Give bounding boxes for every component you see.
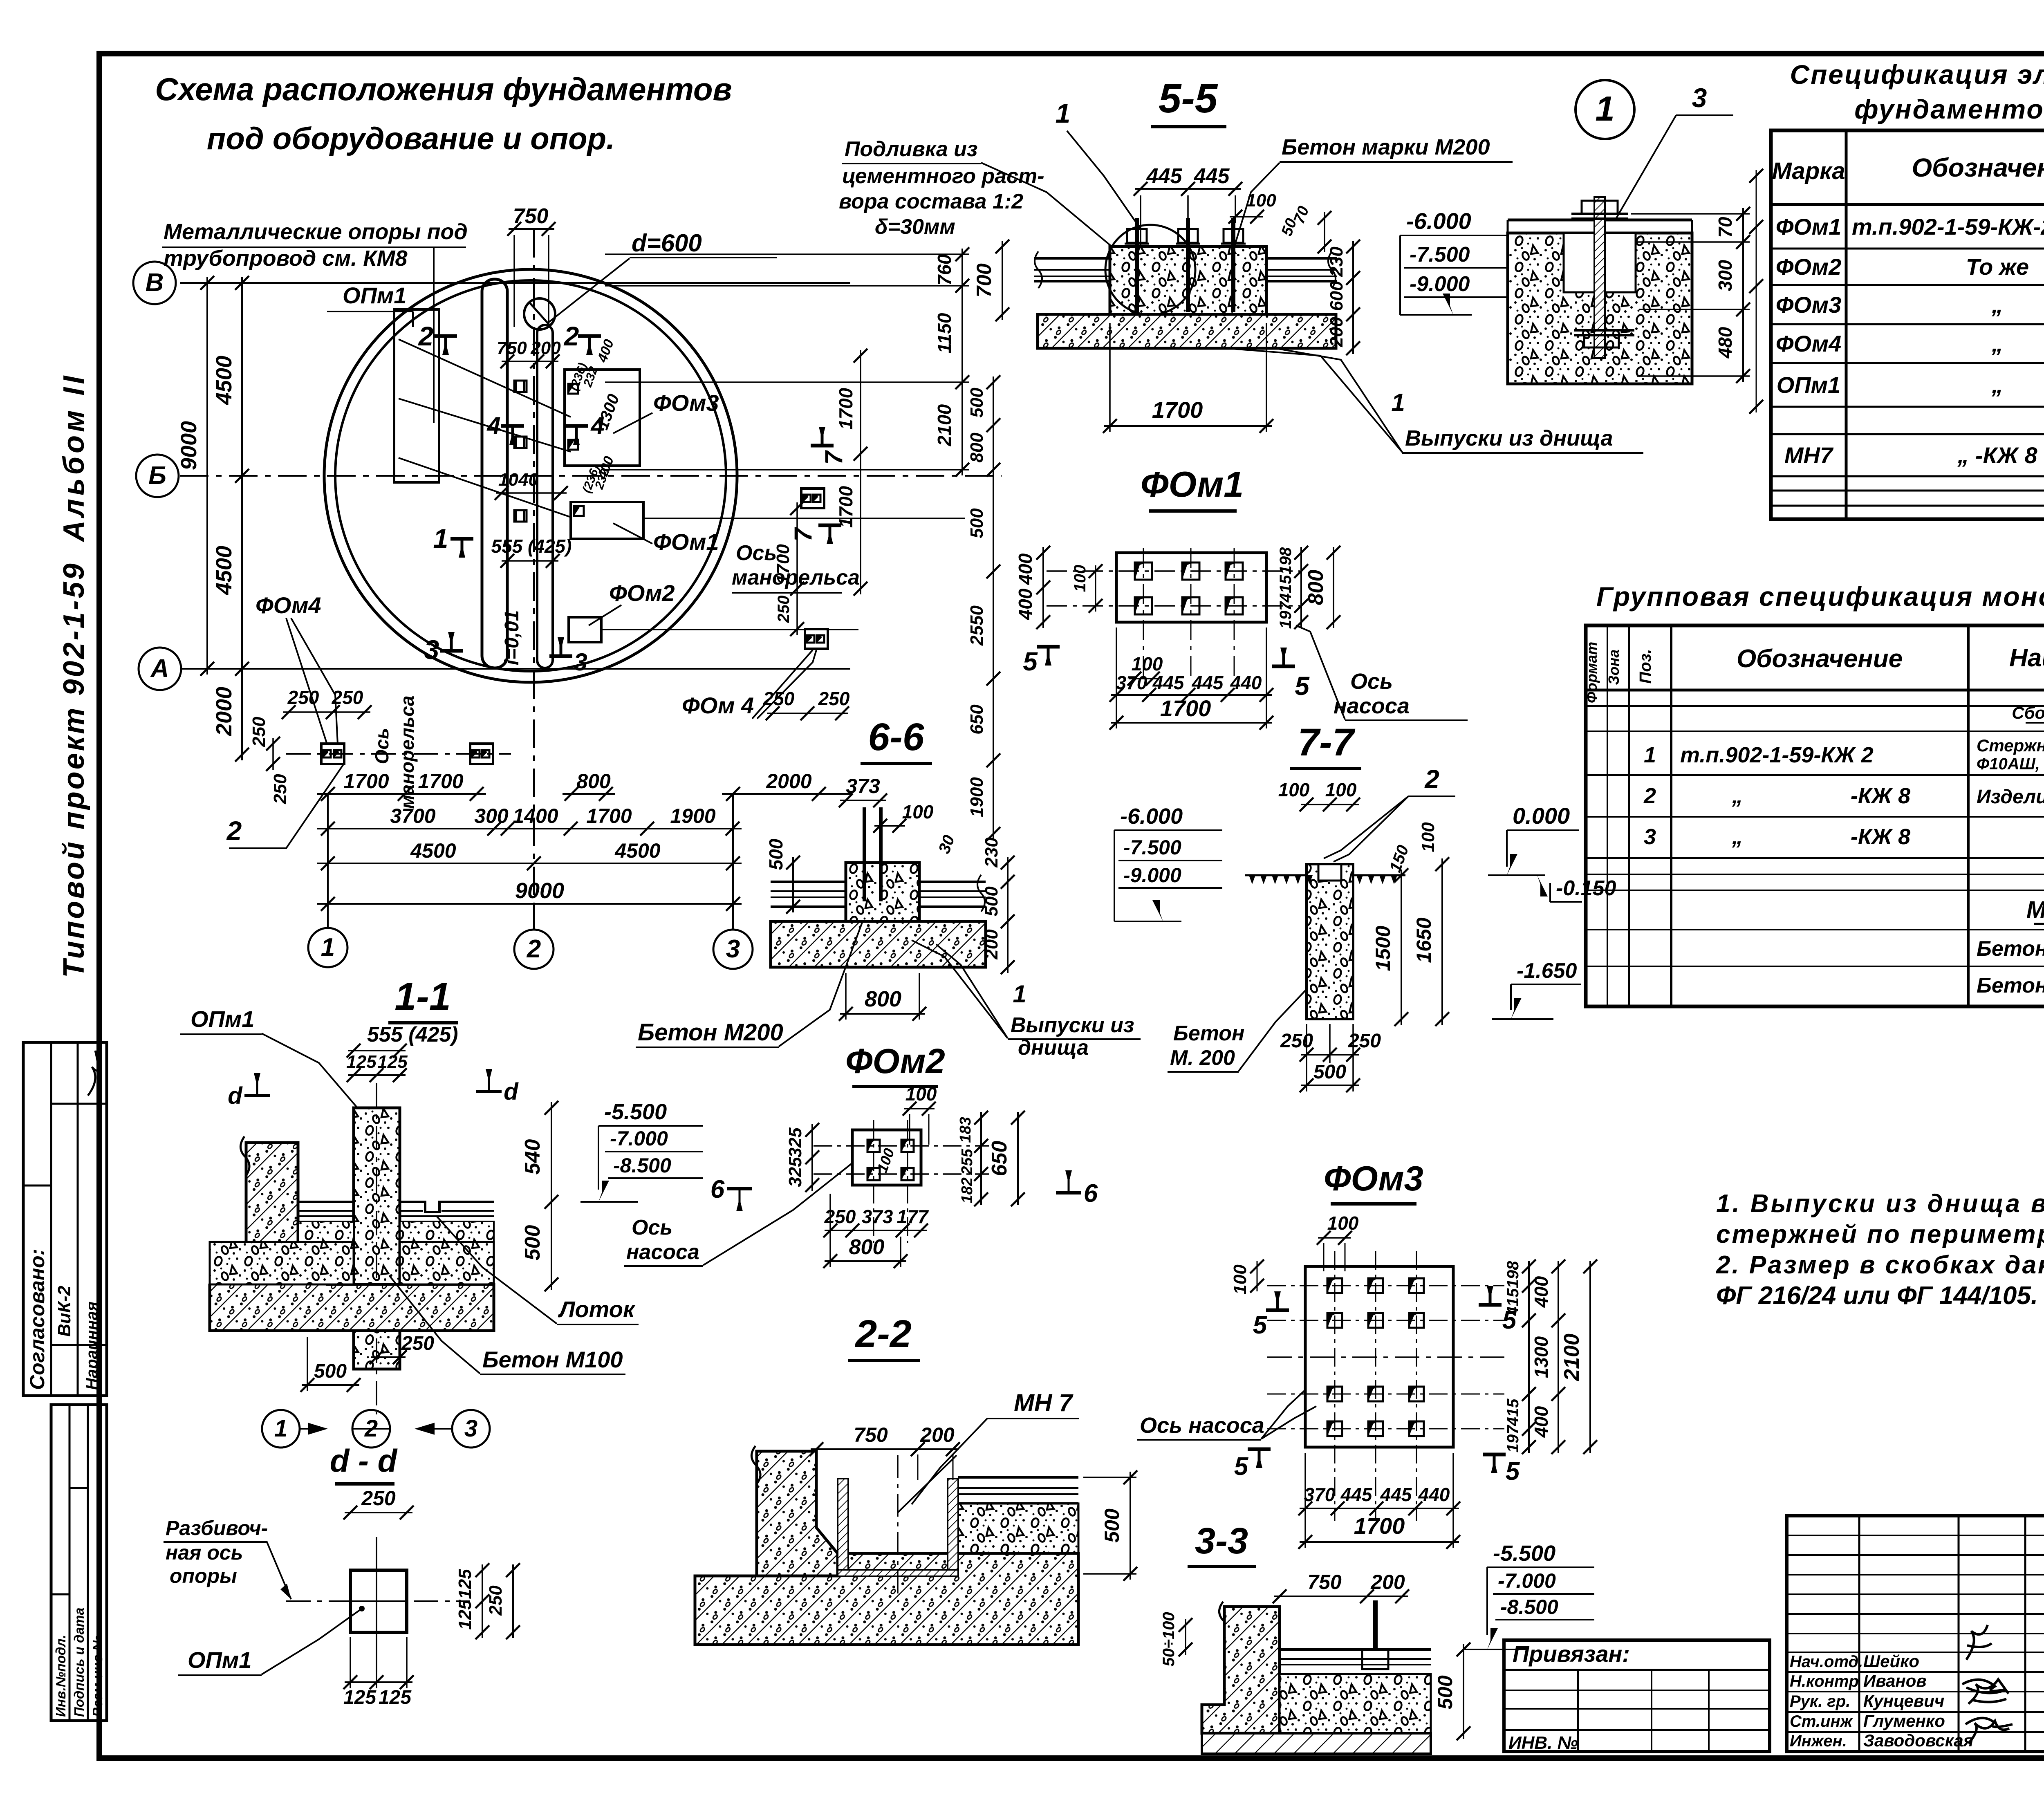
ФОм2 outline <box>852 1130 921 1185</box>
plan bolts on fom1 <box>574 506 584 516</box>
svg-text:Ось: Ось <box>736 541 777 565</box>
svg-text:4500: 4500 <box>410 839 456 862</box>
ФОм1 left dims 400/400 <box>1042 547 1044 628</box>
plan: axis line В <box>180 282 850 284</box>
svg-text:Выпуски из: Выпуски из <box>1011 1013 1134 1037</box>
svg-text:250: 250 <box>287 687 319 708</box>
ФОм1 anchor bolt squares <box>1135 563 1152 580</box>
svg-text:Ф10АШ, ℓ=950 ГОСТ 5.1459-72: Ф10АШ, ℓ=950 ГОСТ 5.1459-72 <box>1977 755 2044 773</box>
svg-text:540: 540 <box>521 1139 545 1175</box>
svg-text:250: 250 <box>1280 1030 1313 1052</box>
svg-text:манорельса: манорельса <box>732 566 860 589</box>
svg-text:цементного раст-: цементного раст- <box>842 164 1044 188</box>
svg-text:5: 5 <box>1234 1452 1249 1481</box>
svg-text:Шейко: Шейко <box>1863 1652 1919 1671</box>
svg-text:250: 250 <box>361 1487 396 1510</box>
axis bubble В <box>133 262 176 304</box>
plan bottom dim row 9000 <box>317 903 742 905</box>
6-6 pedestal <box>846 863 919 921</box>
svg-text:6: 6 <box>1084 1179 1098 1208</box>
6-6 dim 800 below <box>840 1013 925 1015</box>
svg-text:-9.000: -9.000 <box>1123 864 1181 887</box>
svg-text:„: „ <box>1732 825 1743 849</box>
svg-text:„ -КЖ 8: „ -КЖ 8 <box>1957 442 2037 468</box>
dash-dot line through ФОм4 supports <box>286 753 511 755</box>
plan: slot anchor bolts <box>514 381 527 392</box>
section flag 3 left <box>440 649 463 653</box>
svg-text:вора состава 1:2: вора состава 1:2 <box>839 190 1023 213</box>
5-5 right floor slab <box>1266 257 1337 260</box>
opm1 slanted struts <box>399 339 571 417</box>
svg-text:ная ось: ная ось <box>166 1541 243 1564</box>
svg-text:3: 3 <box>464 1415 477 1442</box>
svg-text:-1.650: -1.650 <box>1517 959 1577 983</box>
svg-text:ФОм 4: ФОм 4 <box>682 692 754 718</box>
margin stamp table: Согласовано <box>23 1042 107 1396</box>
svg-text:-КЖ 8: -КЖ 8 <box>1851 825 1910 849</box>
plan bolts on fom3 <box>568 384 578 394</box>
svg-text:Бетон марки 200: Бетон марки 200 <box>1977 937 2044 961</box>
svg-text:750: 750 <box>854 1423 888 1446</box>
svg-text:Стержни одиночные: Стержни одиночные <box>1977 736 2044 755</box>
svg-text:1: 1 <box>321 933 335 961</box>
ФОм3 bolts 3x4 <box>1327 1278 1342 1293</box>
svg-text:Изделие закладное МН8: Изделие закладное МН8 <box>1977 786 2044 808</box>
svg-text:0.000: 0.000 <box>1513 803 1570 829</box>
section flag 7 upper <box>811 444 834 448</box>
svg-text:ФОм2: ФОм2 <box>845 1042 945 1081</box>
svg-text:445: 445 <box>1194 164 1230 188</box>
svg-text:-7.000: -7.000 <box>1498 1569 1556 1592</box>
section flag 7 lower <box>818 524 841 527</box>
7-7 pier top notch <box>1318 864 1341 881</box>
svg-text:Материалы.: Материалы. <box>2026 896 2044 923</box>
svg-text:2. Размер в скобках дан дл: 2. Размер в скобках дан для варианта с н… <box>1716 1251 2044 1279</box>
7-7 ground line with hatching <box>1245 874 1307 876</box>
svg-text:-8.500: -8.500 <box>1500 1596 1558 1618</box>
ФОм3 section marks 5 <box>1266 1309 1289 1312</box>
svg-text:ФОм3: ФОм3 <box>1324 1159 1423 1198</box>
svg-text:1: 1 <box>1056 98 1071 128</box>
svg-text:Инжен.: Инжен. <box>1790 1732 1847 1750</box>
svg-text:d: d <box>504 1078 519 1105</box>
svg-text:125: 125 <box>379 1687 412 1708</box>
svg-text:250: 250 <box>775 596 793 623</box>
svg-text:500: 500 <box>1100 1508 1123 1543</box>
svg-text:ФОм4: ФОм4 <box>1776 331 1842 356</box>
plan: ФОм3 foundation rectangle <box>565 370 640 466</box>
plan bottom dim row 1700/1700 + 800 + 2000 <box>317 793 486 795</box>
ФОм3 right chain 400/1300/400 <box>1558 1261 1559 1453</box>
3-3 dim 500 <box>1463 1644 1464 1739</box>
svg-text:-6.000: -6.000 <box>1120 804 1183 829</box>
ФОм3 outline <box>1305 1266 1453 1447</box>
svg-text:2000: 2000 <box>766 770 811 793</box>
svg-text:750: 750 <box>513 204 549 228</box>
svg-text:2: 2 <box>226 816 242 846</box>
ФОм1 section marks 5 <box>1037 645 1060 649</box>
svg-text:100: 100 <box>902 801 934 822</box>
plan: ФОм1 foundation rectangle <box>571 502 643 539</box>
1-1 axis bubbles 1 2 3 below <box>262 1410 300 1448</box>
svg-text:2100: 2100 <box>1560 1333 1584 1381</box>
spec table left dim ticks <box>1756 170 1757 412</box>
7-7 dim 1500 <box>1401 870 1402 1025</box>
svg-text:760: 760 <box>934 254 955 285</box>
svg-text:Бетон: Бетон <box>1173 1022 1244 1045</box>
svg-text:400: 400 <box>1531 1406 1552 1438</box>
svg-text:445: 445 <box>1192 672 1224 693</box>
svg-text:100: 100 <box>1327 1212 1359 1234</box>
svg-text:Ст.инж: Ст.инж <box>1790 1712 1853 1730</box>
detail 1 top slab line <box>1508 219 1692 222</box>
svg-text:ОПм1: ОПм1 <box>1777 372 1840 398</box>
svg-text:Бетон марки М200: Бетон марки М200 <box>1282 135 1490 159</box>
svg-text:500: 500 <box>1313 1061 1346 1083</box>
ФОм3 bolt axes <box>1267 1285 1504 1286</box>
ФОм1 bolt row axes <box>1047 570 1300 572</box>
svg-text:1700: 1700 <box>835 486 856 528</box>
svg-text:183: 183 <box>957 1117 974 1143</box>
svg-text:100: 100 <box>1325 779 1357 800</box>
svg-text:1. Выпуски из днища выполня: 1. Выпуски из днища выполнять из одиночн… <box>1716 1190 2044 1218</box>
d-d right dims 125/125/250 <box>482 1564 483 1638</box>
svg-text:7-7: 7-7 <box>1298 721 1355 764</box>
svg-text:стержней по периметру фунда: стержней по периметру фундаментов шагом … <box>1716 1220 2044 1248</box>
svg-text:4500: 4500 <box>212 356 236 405</box>
svg-text:т.п.902-1-59-КЖ 2: т.п.902-1-59-КЖ 2 <box>1680 743 1874 767</box>
detail 1 bottom washer and nut <box>1574 329 1634 332</box>
svg-text:-8.500: -8.500 <box>613 1154 671 1177</box>
svg-text:125: 125 <box>343 1687 377 1708</box>
svg-text:Кунцевич: Кунцевич <box>1863 1691 1944 1710</box>
svg-text:„: „ <box>1991 331 2003 356</box>
ФОм2 right chain 183/255/182 <box>980 1112 982 1205</box>
svg-text:Бетон марки 100: Бетон марки 100 <box>1977 974 2044 997</box>
2-2 dim 500 right <box>1130 1472 1131 1580</box>
svg-text:Зона: Зона <box>1605 650 1622 685</box>
svg-text:230: 230 <box>1327 247 1347 277</box>
svg-text:опоры: опоры <box>170 1564 237 1587</box>
axis bubble 2 bottom <box>533 904 535 930</box>
svg-text:255: 255 <box>959 1148 976 1175</box>
6-6 dim 100 <box>874 825 905 827</box>
plan: ФОм2 foundation rectangle <box>569 617 601 642</box>
svg-text:400: 400 <box>1015 588 1036 620</box>
svg-text:300: 300 <box>474 805 509 827</box>
signatures squiggles <box>1966 1625 1992 1660</box>
svg-text:2: 2 <box>527 935 541 963</box>
svg-text:373: 373 <box>846 775 880 798</box>
svg-text:70: 70 <box>1715 217 1736 238</box>
svg-text:1900: 1900 <box>670 805 715 827</box>
svg-text:-7.500: -7.500 <box>1123 836 1181 859</box>
svg-text:500: 500 <box>967 508 987 538</box>
svg-text:1700: 1700 <box>418 770 463 793</box>
svg-text:4: 4 <box>486 412 500 439</box>
svg-text:325: 325 <box>785 1157 805 1187</box>
svg-text:600: 600 <box>1327 281 1347 311</box>
svg-text:Заводовская: Заводовская <box>1863 1731 1974 1750</box>
1-1 dim 250 <box>371 1356 406 1358</box>
svg-text:1700: 1700 <box>343 770 389 793</box>
svg-text:800: 800 <box>967 433 987 463</box>
svg-text:δ=30мм: δ=30мм <box>875 215 955 239</box>
svg-text:То же: То же <box>1966 254 2029 280</box>
svg-text:-5.500: -5.500 <box>1493 1541 1555 1566</box>
plan bottom dim row 3700/300/1400/1700/1900 <box>317 828 742 829</box>
plan: floor drain circle d=600 <box>524 298 555 329</box>
svg-text:1: 1 <box>433 523 448 554</box>
svg-text:400: 400 <box>1015 553 1036 585</box>
svg-text:125: 125 <box>377 1052 408 1072</box>
svg-text:ФОм3: ФОм3 <box>653 390 719 416</box>
svg-text:250: 250 <box>824 1206 856 1227</box>
plan right chain 760/1150/2100 <box>961 249 963 475</box>
svg-text:200: 200 <box>920 1423 955 1446</box>
svg-text:3: 3 <box>1692 83 1707 113</box>
svg-text:198: 198 <box>1277 547 1295 574</box>
svg-text:7: 7 <box>789 527 817 542</box>
svg-text:2: 2 <box>1643 784 1656 808</box>
svg-text:3: 3 <box>424 634 439 665</box>
svg-text:М. 200: М. 200 <box>1170 1046 1235 1070</box>
svg-text:1: 1 <box>1391 389 1405 416</box>
2-2 pit axis <box>897 1455 899 1596</box>
svg-text:100: 100 <box>1071 565 1089 592</box>
3-3 dims 750 200 <box>1274 1596 1408 1597</box>
2-2 pit walls (МН7 channel) <box>838 1479 848 1570</box>
ФОм2 section marks 6 <box>727 1187 752 1190</box>
title block: Привязан box <box>1504 1640 1770 1752</box>
svg-text:Металлические опоры под: Металлические опоры под <box>164 220 468 244</box>
svg-text:125: 125 <box>455 1600 475 1630</box>
detail 1 top washer and nut <box>1571 213 1628 215</box>
plan: pit slot right channel wall <box>537 325 553 668</box>
svg-text:4500: 4500 <box>212 546 236 595</box>
section flag 2 left <box>434 334 457 338</box>
svg-text:800: 800 <box>576 770 611 793</box>
section flag 2 right <box>578 334 601 338</box>
2-2 dims 750 200 <box>811 1448 959 1450</box>
svg-text:5: 5 <box>1023 647 1038 676</box>
5-5 detail circle around left bolt <box>1105 225 1195 315</box>
svg-text:ОПм1: ОПм1 <box>191 1006 254 1032</box>
svg-text:300: 300 <box>1715 260 1736 291</box>
svg-text:9000: 9000 <box>515 878 564 903</box>
svg-text:650: 650 <box>967 704 987 735</box>
1-1 section marks d <box>244 1094 270 1097</box>
svg-text:Ось: Ось <box>632 1216 672 1239</box>
svg-text:325: 325 <box>785 1127 805 1158</box>
3-3 wall hatched <box>1202 1607 1280 1733</box>
1-1 right dims 540/500 <box>551 1102 552 1290</box>
svg-text:Привязан:: Привязан: <box>1513 1641 1630 1667</box>
svg-text:370: 370 <box>1116 672 1148 693</box>
svg-text:3: 3 <box>1644 825 1656 849</box>
svg-text:1-1: 1-1 <box>394 975 450 1018</box>
svg-text:1300: 1300 <box>1531 1336 1552 1378</box>
svg-text:Ось: Ось <box>1350 669 1393 694</box>
svg-text:480: 480 <box>1715 327 1736 359</box>
3-3 base hatched strip <box>1202 1733 1431 1754</box>
svg-text:500: 500 <box>967 388 987 418</box>
svg-text:1900: 1900 <box>967 777 987 817</box>
svg-text:415: 415 <box>1504 1398 1522 1426</box>
svg-text:Ось: Ось <box>371 728 392 764</box>
svg-text:2-2: 2-2 <box>854 1312 911 1356</box>
3-3 floor slab <box>1280 1648 1431 1651</box>
svg-text:-5.500: -5.500 <box>604 1100 667 1124</box>
7-7 dims 100 100 <box>1301 804 1359 805</box>
svg-text:Марка: Марка <box>1772 158 1845 184</box>
svg-text:500: 500 <box>314 1360 347 1382</box>
svg-text:Н.контр: Н.контр <box>1790 1672 1859 1690</box>
1-1 lower fill between slabs <box>210 1242 354 1284</box>
svg-text:„: „ <box>1732 784 1743 808</box>
svg-text:370: 370 <box>1304 1484 1336 1505</box>
svg-text:под оборудование и опор.: под оборудование и опор. <box>207 121 615 156</box>
svg-text:МН7: МН7 <box>1784 442 1834 468</box>
svg-text:182: 182 <box>959 1177 976 1203</box>
ФОм1 right dims 198/415/197 <box>1300 547 1302 628</box>
svg-text:В: В <box>146 269 164 297</box>
5-5 anchor bolts <box>1135 218 1139 312</box>
plan: ФОм4 supports right side <box>801 489 824 508</box>
svg-text:197: 197 <box>1504 1425 1522 1452</box>
2-2 left wall hatched <box>695 1451 838 1645</box>
svg-text:Поз.: Поз. <box>1636 649 1654 684</box>
svg-text:ФОм3: ФОм3 <box>1776 292 1842 318</box>
svg-text:Взам.инв.№: Взам.инв.№ <box>90 1635 105 1717</box>
svg-text:7: 7 <box>820 450 847 465</box>
6-6 left slab <box>771 881 846 883</box>
svg-text:415: 415 <box>1277 575 1295 603</box>
svg-text:1500: 1500 <box>1372 926 1394 971</box>
svg-text:5-5: 5-5 <box>1159 76 1218 121</box>
svg-text:500: 500 <box>521 1225 545 1261</box>
axis bubble 3 bottom <box>732 794 734 930</box>
svg-text:2: 2 <box>563 321 579 351</box>
svg-text:800: 800 <box>849 1235 885 1259</box>
svg-text:200: 200 <box>982 929 1002 960</box>
svg-text:6: 6 <box>710 1175 725 1203</box>
svg-text:Обозначение: Обозначение <box>1912 153 2044 182</box>
left dim chain 4500/4500/2000 <box>241 277 243 760</box>
svg-text:-7.500: -7.500 <box>1410 243 1470 267</box>
1-1 left floor slab <box>298 1201 354 1203</box>
svg-text:400: 400 <box>1531 1276 1552 1308</box>
svg-text:Подливка из: Подливка из <box>845 137 977 161</box>
svg-text:650: 650 <box>988 1141 1011 1177</box>
spec table grid <box>1771 130 2044 519</box>
ФОм2 left dims 325/325 <box>811 1124 813 1191</box>
svg-text:100: 100 <box>1132 653 1163 675</box>
5-5 foundation pedestal with concrete fill <box>1110 247 1266 314</box>
svg-text:ФОм1: ФОм1 <box>653 529 719 555</box>
detail 1 right dim chain 70/300/480 <box>1742 208 1744 382</box>
svg-text:750: 750 <box>1307 1571 1342 1593</box>
svg-text:2: 2 <box>418 321 434 351</box>
7-7 bottom dim 500 <box>1301 1085 1359 1086</box>
ФОм3 bottom dim 1700 <box>1300 1541 1459 1543</box>
svg-text:Согласовано:: Согласовано: <box>26 1249 49 1390</box>
section flag 4 right <box>565 424 588 428</box>
svg-text:i=0,01: i=0,01 <box>501 610 523 666</box>
svg-text:1650: 1650 <box>1412 917 1435 963</box>
svg-text:500: 500 <box>1434 1675 1457 1710</box>
1-1 dim 500 <box>302 1384 359 1386</box>
plan: axis line Б (dash-dot) <box>180 475 1002 477</box>
svg-text:„: „ <box>1991 372 2003 398</box>
svg-text:100: 100 <box>1246 190 1276 211</box>
svg-text:1700: 1700 <box>1354 1513 1405 1539</box>
svg-text:555 (425): 555 (425) <box>367 1023 458 1047</box>
svg-text:Наименование: Наименование <box>2009 644 2044 672</box>
svg-text:ОПм1: ОПм1 <box>343 282 406 308</box>
svg-text:2550: 2550 <box>967 605 987 646</box>
svg-text:ФОм1: ФОм1 <box>1141 464 1244 504</box>
svg-text:250: 250 <box>486 1585 506 1616</box>
svg-text:Формат: Формат <box>1583 642 1600 703</box>
svg-text:445: 445 <box>1340 1484 1373 1505</box>
svg-text:Подпись и дата: Подпись и дата <box>72 1608 87 1717</box>
plan bottom dim row 4500/4500 <box>317 863 742 864</box>
1-1 left retaining wall hatched <box>210 1143 494 1331</box>
svg-text:насоса: насоса <box>626 1240 699 1264</box>
svg-text:Ось насоса: Ось насоса <box>1140 1413 1264 1438</box>
extension line from ФОм2 <box>601 629 858 630</box>
svg-text:Нараинная: Нараинная <box>83 1302 101 1390</box>
svg-text:1: 1 <box>274 1415 287 1442</box>
svg-text:555 (425): 555 (425) <box>491 536 572 557</box>
svg-text:Выпуски из днища: Выпуски из днища <box>1405 426 1613 450</box>
svg-text:-7.000: -7.000 <box>610 1127 668 1150</box>
svg-text:Типовой проект 902-1-59: Типовой проект 902-1-59 <box>58 561 90 978</box>
ФОм2 bottom chain 250/373/177 <box>825 1230 927 1231</box>
ФОм1 outline <box>1116 553 1266 622</box>
svg-text:ФГ 216/24 или ФГ 144/105.: ФГ 216/24 или ФГ 144/105. <box>1716 1282 2038 1310</box>
svg-text:445: 445 <box>1380 1484 1412 1505</box>
6-6 anchor bolts <box>863 807 866 901</box>
svg-text:Альбом II: Альбом II <box>58 373 90 542</box>
svg-text:177: 177 <box>897 1206 929 1227</box>
title block: middle sign grid <box>1787 1516 2044 1752</box>
ФОм3 right chain 198/415/415/197 <box>1528 1261 1530 1453</box>
svg-text:2100: 2100 <box>934 404 955 446</box>
svg-text:Иванов: Иванов <box>1863 1671 1927 1690</box>
svg-text:100: 100 <box>1278 779 1310 800</box>
1-1 column centerline <box>376 1083 377 1414</box>
svg-text:250: 250 <box>401 1333 434 1354</box>
d-d square support <box>350 1570 407 1632</box>
svg-text:250: 250 <box>249 717 269 747</box>
2-2 floor slab right of pit <box>958 1476 1078 1479</box>
margin stamp table: Инв/Подпись/Взам <box>51 1405 107 1721</box>
svg-text:800: 800 <box>865 987 901 1011</box>
svg-text:3: 3 <box>726 935 740 963</box>
6-6 base slab hatched <box>771 921 986 967</box>
7-7 pier with concrete fill <box>1307 864 1353 1019</box>
svg-text:Рук. гр.: Рук. гр. <box>1790 1692 1850 1710</box>
svg-text:250: 250 <box>332 687 363 708</box>
plan: axis line А <box>180 668 850 670</box>
svg-text:трубопровод см. КМ8: трубопровод см. КМ8 <box>164 246 408 271</box>
svg-text:750: 750 <box>497 338 527 358</box>
1-1 right floor slab with lotok channel <box>400 1202 494 1212</box>
svg-text:d - d: d - d <box>330 1443 398 1479</box>
svg-text:250: 250 <box>818 688 850 709</box>
